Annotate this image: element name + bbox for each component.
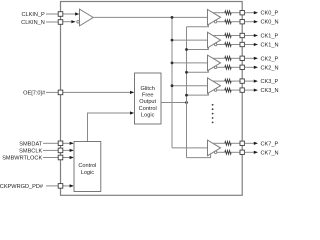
wire CK3_N output <box>217 89 225 91</box>
svg-text:CKPWRGD_PD#: CKPWRGD_PD# <box>0 184 44 190</box>
arrow CK3_P <box>254 80 258 83</box>
wire CK7_P arrow line <box>244 142 254 144</box>
svg-text:CK3_N: CK3_N <box>261 88 279 94</box>
svg-text:Logic: Logic <box>141 112 155 118</box>
svg-text:CK0_P: CK0_P <box>261 11 279 17</box>
wire clock tap CK7 <box>172 147 208 149</box>
wire CK7_N arrow line <box>244 151 254 153</box>
inversion bubble CLKIN_N <box>77 20 80 23</box>
pin CK1_P <box>240 33 244 37</box>
wire enable tap CK1 <box>187 47 209 50</box>
wire enable tap CK7 <box>187 154 211 158</box>
pin CLKIN_N <box>58 20 63 25</box>
arrow SMBWRTLOCK <box>70 156 74 159</box>
junction clock node 2 <box>171 62 174 65</box>
wire CK2_P to pin <box>231 57 240 59</box>
arrow OE <box>130 91 134 94</box>
wire clock distribution vertical <box>171 17 173 148</box>
junction clock node 3 <box>171 84 174 87</box>
resistor CK1_N <box>225 43 231 47</box>
arrow CK1_P <box>254 34 258 37</box>
wire SMBCLK to control logic <box>63 149 73 151</box>
svg-text:CK7_N: CK7_N <box>261 150 279 156</box>
resistor CK0_N <box>225 20 231 24</box>
svg-text:OE[7:0]#: OE[7:0]# <box>23 90 46 96</box>
output buffer CK2 <box>208 55 221 71</box>
junction enable node 2 <box>185 71 188 74</box>
svg-text:Output: Output <box>139 99 156 105</box>
junction clock node 1 <box>171 39 174 42</box>
wire CK7_N to pin <box>231 151 240 153</box>
pin CK7_N <box>240 150 244 154</box>
output buffer CK3 <box>208 78 221 94</box>
wire CK1_P to pin <box>231 35 240 37</box>
wire CK2_P arrow line <box>244 57 254 59</box>
pin CLKIN_P <box>58 12 63 17</box>
output buffer CK1 <box>208 32 221 48</box>
arrow CK0_N <box>254 20 258 23</box>
resistor CK3_P <box>225 79 231 83</box>
svg-text:Free: Free <box>142 93 154 99</box>
svg-text:CK3_P: CK3_P <box>261 79 279 85</box>
svg-text:CK2_N: CK2_N <box>261 65 279 71</box>
wire CK7_N output <box>217 151 225 153</box>
wire enable tap CK3 <box>187 92 209 95</box>
inversion bubble CK7_N <box>214 151 217 154</box>
arrow SMBCLK <box>70 149 74 152</box>
wire CLKIN_P leader <box>46 13 58 15</box>
wire enable tap CK2 <box>187 70 209 73</box>
wire CLKIN_P to buffer <box>63 13 79 15</box>
wire CKPWRGD_PD# to control logic <box>63 185 73 187</box>
junction enable node <box>185 101 188 104</box>
wire CK0_N to pin <box>231 21 240 23</box>
svg-text:SMBWRTLOCK: SMBWRTLOCK <box>2 156 42 162</box>
pin CKPWRGD_PD# <box>58 184 63 189</box>
inversion bubble CK2_N <box>214 66 217 69</box>
arrow CK1_N <box>254 43 258 46</box>
wire clock tap CK3 <box>172 85 208 87</box>
arrow SMBDAT <box>70 142 74 145</box>
wire CK3_P arrow line <box>244 80 254 82</box>
pin SMBDAT <box>58 141 63 146</box>
wire SMBCLK leader <box>43 149 58 151</box>
svg-text:CK1_N: CK1_N <box>261 43 279 49</box>
wire CLKIN_N to buffer <box>63 21 75 23</box>
wire SMBDAT leader <box>43 142 58 144</box>
wire CK0_P output <box>213 12 225 14</box>
wire CKPWRGD_PD# leader <box>46 185 58 187</box>
wire CK2_N arrow line <box>244 66 254 68</box>
wire glitch logic enable output <box>161 102 187 104</box>
pin OE[7:0]# <box>58 90 63 95</box>
inversion bubble CK3_N <box>214 89 217 92</box>
wire clock tap CK1 <box>172 39 208 41</box>
resistor CK0_P <box>225 11 231 15</box>
svg-text:CK7_P: CK7_P <box>261 141 279 147</box>
output buffer CK0 <box>208 10 221 26</box>
wire CLKIN_N leader <box>46 21 58 23</box>
pin SMBCLK <box>58 148 63 153</box>
pin CK0_N <box>240 20 244 24</box>
arrow CK7_N <box>254 151 258 154</box>
svg-text:Control: Control <box>139 106 157 112</box>
wire CK0_P arrow line <box>244 12 254 14</box>
wire CK1_N output <box>217 44 225 46</box>
arrow CK7_P <box>254 142 258 145</box>
pin CK2_P <box>240 56 244 60</box>
resistor CK2_P <box>225 56 231 60</box>
wire CK3_N arrow line <box>244 89 254 91</box>
resistor CK2_N <box>225 65 231 69</box>
pin CK3_P <box>240 79 244 83</box>
resistor CK7_N <box>225 150 231 154</box>
arrow CK2_P <box>254 57 258 60</box>
svg-text:CK0_N: CK0_N <box>261 20 279 26</box>
inversion bubble CK1_N <box>214 43 217 46</box>
wire CK2_P output <box>213 57 225 59</box>
wire CK3_P to pin <box>231 80 240 82</box>
arrow CLKIN_N <box>71 20 75 23</box>
input buffer U1 <box>80 9 94 26</box>
svg-text:CLKIN_N: CLKIN_N <box>21 20 45 26</box>
wire enable distribution vertical <box>186 27 188 158</box>
arrow CK2_N <box>254 66 258 69</box>
arrow CK3_N <box>254 89 258 92</box>
wire CK7_P to pin <box>231 142 240 144</box>
inversion bubble CK0_N <box>214 20 217 23</box>
svg-text:SMBCLK: SMBCLK <box>19 148 42 154</box>
pin CK3_N <box>240 88 244 92</box>
wire OE to glitch logic <box>63 91 133 93</box>
wire OE leader <box>46 91 58 93</box>
wire CK3_P output <box>213 80 225 82</box>
junction enable node 1 <box>185 48 188 51</box>
pin CK1_N <box>240 42 244 46</box>
arrow CLKIN_P <box>75 12 79 15</box>
block Glitch Free Output Control Logic <box>135 73 162 124</box>
wire SMBWRTLOCK to control logic <box>63 157 73 159</box>
wire control logic to glitch logic riser <box>88 113 134 142</box>
chip outline <box>61 2 243 196</box>
resistor CK3_N <box>225 88 231 92</box>
pin CK2_N <box>240 65 244 69</box>
pin SMBWRTLOCK <box>58 155 63 160</box>
wire CK1_P arrow line <box>244 35 254 37</box>
wire CK0_P to pin <box>231 12 240 14</box>
junction enable node 3 <box>185 94 188 97</box>
wire CK1_N arrow line <box>244 44 254 46</box>
wire CK1_N to pin <box>231 44 240 46</box>
wire input buffer output <box>93 16 207 18</box>
wire CK3_N to pin <box>231 89 240 91</box>
svg-text:Glitch: Glitch <box>141 86 155 92</box>
arrow CKPWRGD_PD# <box>70 184 74 187</box>
wire CK1_P output <box>213 35 225 37</box>
arrow control to glitch <box>130 111 134 114</box>
svg-text:SMBDAT: SMBDAT <box>19 141 42 147</box>
wire CK2_N to pin <box>231 66 240 68</box>
wire CK2_N output <box>217 66 225 68</box>
output buffer CK7 <box>208 140 221 156</box>
junction clock node 0 <box>171 16 174 19</box>
wire CK0_N arrow line <box>244 21 254 23</box>
wire enable tap CK0 <box>187 24 209 27</box>
resistor CK1_P <box>225 34 231 38</box>
svg-text:Control: Control <box>78 163 96 169</box>
resistor CK7_P <box>225 141 231 145</box>
wire SMBDAT to control logic <box>63 142 73 144</box>
wire CK7_P output <box>213 142 225 144</box>
wire clock tap CK2 <box>172 62 208 64</box>
svg-text:CK2_P: CK2_P <box>261 56 279 62</box>
ellipsis channels 4-6 <box>212 104 214 123</box>
wire CK0_N output <box>217 21 225 23</box>
block Control Logic <box>74 142 101 192</box>
svg-text:Logic: Logic <box>81 170 95 176</box>
pin CK0_P <box>240 11 244 15</box>
svg-text:CLKIN_P: CLKIN_P <box>21 12 45 18</box>
svg-text:CK1_P: CK1_P <box>261 34 279 40</box>
wire SMBWRTLOCK leader <box>43 157 58 159</box>
arrow CK0_P <box>254 11 258 14</box>
pin CK7_P <box>240 141 244 145</box>
